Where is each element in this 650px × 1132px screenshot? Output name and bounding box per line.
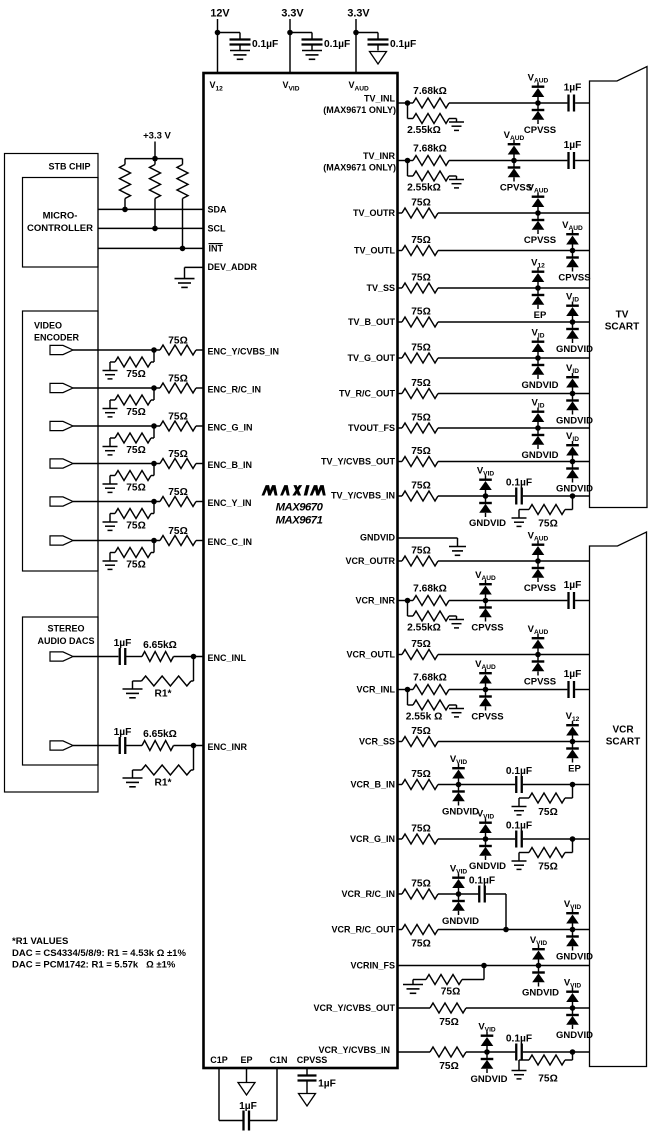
capacitor 0.1µF VCR_Y/CVBS_IN	[515, 1044, 517, 1061]
svg-text:0.1µF: 0.1µF	[469, 876, 495, 887]
svg-text:6.65kΩ: 6.65kΩ	[143, 640, 177, 651]
diode clamp VCR_OUTL upper (VAUD)	[532, 634, 545, 655]
svg-text:VCR_OUTL: VCR_OUTL	[346, 650, 395, 660]
svg-text:VCR: VCR	[612, 725, 634, 736]
ground	[449, 708, 464, 710]
junction TV_INL	[405, 100, 411, 106]
svg-text:STB CHIP: STB CHIP	[48, 162, 90, 172]
svg-text:75Ω: 75Ω	[411, 769, 431, 780]
junction VCR_SS	[570, 739, 576, 745]
buffer arrow ENC_Y_IN	[50, 497, 73, 506]
buffer arrow ENC_R/C_IN	[50, 383, 73, 392]
capacitor 0.1µF TV_Y/CVBS_IN	[515, 488, 517, 505]
wire VCR_INR	[398, 600, 414, 602]
junction ENC_G_IN	[151, 423, 157, 429]
svg-text:ENC_C_IN: ENC_C_IN	[208, 537, 253, 547]
svg-text:EP: EP	[568, 764, 581, 775]
ground DEV_ADDR	[175, 278, 195, 280]
svg-text:75Ω: 75Ω	[411, 378, 431, 389]
junction VCR_Y/CVBS_OUT	[570, 1005, 576, 1011]
resistor 2.55kΩ VCR_INL	[407, 690, 409, 706]
buffer arrow ENC_Y/CVBS_IN	[50, 345, 73, 354]
resistor 75Ω series ENC_G_IN	[160, 421, 196, 431]
svg-text:VCR_R/C_IN: VCR_R/C_IN	[341, 889, 395, 899]
wire VCR_R/C_OUT	[398, 929, 403, 931]
svg-text:ENC_Y/CVBS_IN: ENC_Y/CVBS_IN	[208, 346, 280, 356]
wire ENC_G_IN	[73, 425, 160, 427]
svg-text:DEV_ADDR: DEV_ADDR	[208, 262, 258, 272]
junction VCR_OUTL	[535, 652, 541, 658]
diode clamp TVOUT_FS upper (VID)	[532, 408, 545, 429]
svg-text:75Ω: 75Ω	[411, 198, 431, 209]
svg-text:3.3V: 3.3V	[347, 7, 370, 19]
resistor 75Ω series ENC_Y/CVBS_IN	[160, 345, 196, 355]
svg-text:GNDVID: GNDVID	[360, 533, 396, 543]
svg-text:0.1µF: 0.1µF	[506, 1034, 532, 1045]
ground	[230, 50, 250, 52]
wire VCR_OUTR	[398, 560, 403, 562]
STEREO AUDIO DACS box	[23, 617, 99, 765]
wire VCR_R/C_IN to VCR_R/C_OUT	[486, 893, 506, 895]
resistor 75Ω shunt VCR_G_IN	[572, 839, 574, 853]
wire TV_SS	[398, 287, 403, 289]
wire DEV_ADDR	[185, 266, 204, 268]
diode clamp TV_OUTR lower (CPVSS)	[532, 213, 545, 234]
junction VCR_INR	[483, 598, 489, 604]
svg-text:CPVSS: CPVSS	[297, 1055, 328, 1065]
svg-text:75Ω: 75Ω	[168, 449, 188, 460]
junction TV_INR	[511, 158, 517, 164]
capacitor 0.1uF on 12V	[230, 38, 251, 40]
resistor 2.55kΩ TV_INR	[407, 161, 409, 177]
capacitor 1µF VCR_INL	[567, 681, 569, 698]
junction VCR_B_IN	[456, 782, 462, 788]
MICRO-CONTROLLER box	[23, 178, 99, 268]
svg-text:TV_OUTR: TV_OUTR	[353, 208, 396, 218]
diode clamp VCR_INR upper (VAUD)	[479, 580, 492, 601]
svg-text:CPVSS: CPVSS	[524, 235, 556, 246]
junction VCR_INR	[405, 598, 411, 604]
diode clamp VCR_R/C_IN lower (GNDVID)	[452, 894, 465, 915]
wire C1N	[276, 1068, 278, 1121]
resistor 7.68kΩ TV_INR	[413, 156, 449, 166]
svg-text:GNDVID: GNDVID	[522, 450, 559, 461]
junction TV_Y/CVBS_IN output node	[570, 493, 576, 499]
svg-text:VCR_G_IN: VCR_G_IN	[350, 834, 395, 844]
junction pullup 2	[152, 226, 158, 232]
diode clamp VCR_B_IN lower (GNDVID)	[452, 785, 465, 806]
resistor 7.68kΩ TV_INL	[413, 98, 449, 108]
ground	[103, 370, 118, 372]
junction VCR_INL	[405, 687, 411, 693]
capacitor 1µF C1P-C1N	[242, 1111, 244, 1131]
junction ENC_R/C_IN	[151, 385, 157, 391]
resistor 6.65kΩ ENC_INL	[142, 652, 174, 662]
junction VCR_Y/CVBS_IN	[484, 1049, 490, 1055]
svg-text:75Ω: 75Ω	[126, 369, 146, 380]
svg-text:2.55k Ω: 2.55k Ω	[406, 712, 443, 723]
svg-text:DAC = PCM1742: R1 = 5.57k Ω: DAC = PCM1742: R1 = 5.57k Ω ±1%	[12, 960, 176, 971]
svg-text:75Ω: 75Ω	[411, 235, 431, 246]
svg-text:75Ω: 75Ω	[168, 412, 188, 423]
resistor R1* ENC_INR	[193, 746, 195, 771]
wire SDA	[98, 208, 204, 210]
svg-text:TV_R/C_OUT: TV_R/C_OUT	[339, 389, 396, 399]
wire VCR_Y/CVBS_IN	[398, 1051, 431, 1053]
diode clamp VCR_R/C_OUT lower (GNDVID)	[566, 930, 579, 951]
resistor pullup 3	[182, 159, 184, 165]
svg-text:ENC_B_IN: ENC_B_IN	[208, 460, 253, 470]
wire TV_INL	[398, 102, 414, 104]
diode clamp VCR_SS upper (V12)	[566, 721, 579, 742]
junction 3.3V	[287, 30, 293, 36]
svg-text:GNDVID: GNDVID	[556, 484, 593, 495]
ground	[449, 619, 464, 621]
svg-text:7.68kΩ: 7.68kΩ	[413, 144, 447, 155]
svg-text:(MAX9671 ONLY): (MAX9671 ONLY)	[323, 105, 396, 115]
svg-text:+3.3 V: +3.3 V	[143, 130, 171, 141]
wire SCL	[98, 227, 204, 229]
svg-text:75Ω: 75Ω	[126, 483, 146, 494]
diode clamp VCR_INL lower (CPVSS)	[479, 690, 492, 711]
wire 3.3V rail	[355, 19, 357, 73]
diode clamp VCR_Y/CVBS_IN upper (VVID)	[481, 1032, 494, 1053]
capacitor 1µF TV_INR	[567, 152, 569, 169]
svg-text:R1*: R1*	[155, 689, 172, 700]
svg-text:CPVSS: CPVSS	[558, 273, 590, 284]
wire VCR_G_IN	[398, 838, 403, 840]
wire VCR_B_IN	[398, 784, 403, 786]
svg-text:GNDVID: GNDVID	[469, 861, 506, 872]
svg-text:VCR_Y/CVBS_IN: VCR_Y/CVBS_IN	[318, 1045, 390, 1055]
svg-text:75Ω: 75Ω	[411, 824, 431, 835]
svg-text:EP: EP	[240, 1055, 252, 1065]
wire VCR_SS	[398, 741, 403, 743]
svg-text:75Ω: 75Ω	[168, 487, 188, 498]
svg-text:2.55kΩ: 2.55kΩ	[407, 125, 441, 136]
diode clamp TV_B_OUT upper (VID)	[566, 302, 579, 323]
diode clamp VCR_INL upper (VAUD)	[479, 669, 492, 690]
junction TV_G_OUT	[535, 355, 541, 361]
svg-text:SCART: SCART	[606, 737, 640, 748]
junction TV_R/C_OUT	[570, 391, 576, 397]
ground	[103, 446, 118, 448]
wire ENC_Y/CVBS_IN	[73, 349, 160, 351]
wire GNDVID	[398, 537, 458, 539]
diode clamp VCR_SS lower (EP)	[566, 742, 579, 763]
junction VCR_G_IN	[483, 836, 489, 842]
svg-text:TV_INL: TV_INL	[364, 93, 396, 103]
buffer arrow ENC_INR	[50, 741, 73, 750]
svg-text:DAC = CS4334/5/8/9: R1 = 4.53k: DAC = CS4334/5/8/9: R1 = 4.53k Ω ±1%	[12, 948, 186, 959]
svg-text:ENCODER: ENCODER	[34, 333, 80, 343]
svg-text:75Ω: 75Ω	[411, 726, 431, 737]
buffer arrow ENC_C_IN	[50, 536, 73, 545]
ground GNDVID	[449, 546, 466, 548]
wire TV_INR to clamp	[449, 160, 567, 162]
wire 12V rail	[217, 19, 219, 73]
svg-text:12V: 12V	[210, 7, 230, 19]
junction TV_Y/CVBS_OUT	[570, 459, 576, 465]
svg-text:75Ω: 75Ω	[168, 374, 188, 385]
svg-text:TV_OUTL: TV_OUTL	[354, 246, 396, 256]
wire TV_INR to connector	[575, 160, 589, 162]
signal ground CPVSS	[299, 1094, 316, 1107]
svg-text:AUDIO DACS: AUDIO DACS	[37, 636, 94, 646]
svg-text:1µF: 1µF	[239, 1101, 257, 1112]
wire ENC_B_IN	[73, 463, 160, 465]
svg-text:GNDVID: GNDVID	[522, 988, 559, 999]
svg-text:75Ω: 75Ω	[168, 526, 188, 537]
diode clamp VCR_B_IN upper (VVID)	[452, 764, 465, 785]
wire TV_INL to clamp	[449, 102, 567, 104]
svg-text:3.3V: 3.3V	[281, 7, 304, 19]
svg-text:(MAX9671 ONLY): (MAX9671 ONLY)	[323, 163, 396, 173]
signal ground	[370, 52, 387, 65]
resistor 75Ω series ENC_B_IN	[160, 459, 196, 469]
svg-text:GNDVID: GNDVID	[556, 416, 593, 427]
TV SCART connector	[590, 67, 648, 508]
junction TV_B_OUT	[570, 319, 576, 325]
svg-text:CPVSS: CPVSS	[524, 583, 556, 594]
diode clamp VCRIN_FS upper (VVID)	[532, 945, 545, 966]
svg-text:CPVSS: CPVSS	[524, 125, 556, 136]
diode clamp VCR_G_IN lower (GNDVID)	[479, 839, 492, 860]
diode clamp TV_Y/CVBS_OUT upper (VID)	[566, 441, 579, 462]
svg-text:75Ω: 75Ω	[411, 481, 431, 492]
ground	[403, 984, 423, 986]
diode clamp TV_OUTL lower (CPVSS)	[566, 251, 579, 272]
signal ground EP	[238, 1083, 255, 1096]
junction ENC_B_IN	[151, 461, 157, 467]
wire ENC_C_IN	[73, 540, 160, 542]
junction TV_Y/CVBS_IN	[483, 493, 489, 499]
diode clamp TV_Y/CVBS_OUT lower (GNDVID)	[566, 462, 579, 483]
wire ENC_INR	[73, 745, 118, 747]
junction +3.3V	[152, 156, 158, 162]
svg-text:CPVSS: CPVSS	[471, 712, 503, 723]
junction TV_SS	[535, 285, 541, 291]
svg-text:1µF: 1µF	[564, 669, 582, 680]
svg-text:SDA: SDA	[208, 205, 228, 215]
svg-text:75Ω: 75Ω	[126, 407, 146, 418]
svg-text:VCR_OUTR: VCR_OUTR	[345, 556, 395, 566]
svg-text:0.1µF: 0.1µF	[252, 39, 278, 50]
capacitor 0.1uF on 3.3V	[302, 38, 323, 40]
ground	[449, 121, 464, 123]
junction VCR_OUTR	[535, 558, 541, 564]
ground	[512, 806, 527, 808]
diode clamp VCR_Y/CVBS_OUT lower (GNDVID)	[566, 1008, 579, 1029]
capacitor 1µF ENC_INR	[119, 737, 121, 754]
svg-text:ENC_INL: ENC_INL	[208, 653, 247, 663]
diode clamp TV_INL upper (VAUD)	[532, 83, 545, 104]
svg-text:INT: INT	[209, 244, 224, 254]
svg-text:VCR_R/C_OUT: VCR_R/C_OUT	[331, 925, 395, 935]
capacitor 0.1µF VCR_B_IN	[515, 776, 517, 793]
wire VCR_R/C_IN	[398, 893, 403, 895]
svg-text:CPVSS: CPVSS	[524, 677, 556, 688]
junction 12V	[215, 30, 221, 36]
wire TV_OUTL	[398, 250, 403, 252]
svg-text:0.1µF: 0.1µF	[390, 39, 416, 50]
ground	[512, 1070, 527, 1072]
svg-text:ENC_Y_IN: ENC_Y_IN	[208, 498, 252, 508]
svg-text:C1P: C1P	[210, 1055, 228, 1065]
ground	[302, 50, 322, 52]
ground	[449, 179, 464, 181]
junction VCR_B_IN output node	[570, 782, 576, 788]
diode clamp TV_INR lower (CPVSS)	[508, 161, 521, 182]
wire ENC_INL	[73, 656, 118, 658]
wire TV_OUTR	[398, 212, 403, 214]
svg-text:GNDVID: GNDVID	[522, 380, 559, 391]
junction ENC_Y_IN	[151, 499, 157, 505]
junction VCRIN_FS	[536, 963, 542, 969]
junction ENC_Y/CVBS_IN	[151, 347, 157, 353]
junction ENC_INL	[191, 654, 197, 660]
svg-text:SCART: SCART	[605, 322, 639, 333]
svg-text:TVOUT_FS: TVOUT_FS	[348, 423, 395, 433]
svg-text:VCR_SS: VCR_SS	[359, 737, 395, 747]
diode clamp TV_INR upper (VAUD)	[508, 140, 521, 161]
svg-text:75Ω: 75Ω	[538, 862, 558, 873]
resistor 6.65kΩ ENC_INR	[142, 741, 174, 751]
junction VCR_R/C_IN	[456, 891, 462, 897]
svg-text:STEREO: STEREO	[47, 624, 84, 634]
resistor 75Ω shunt ENC_Y_IN	[153, 502, 155, 514]
svg-text:TV_Y/CVBS_OUT: TV_Y/CVBS_OUT	[321, 457, 396, 467]
svg-text:75Ω: 75Ω	[411, 639, 431, 650]
wire VCR_Y/CVBS_OUT	[398, 1007, 431, 1009]
wire TV_B_OUT	[398, 321, 403, 323]
junction pullup 3	[180, 246, 186, 252]
svg-text:75Ω: 75Ω	[441, 987, 461, 998]
wire CPVSS	[306, 1068, 308, 1076]
diode clamp TV_B_OUT lower (GNDVID)	[566, 322, 579, 343]
junction VCR_INL	[483, 687, 489, 693]
diode clamp VCR_R/C_OUT upper (VVID)	[566, 909, 579, 930]
diode clamp TV_INL lower (CPVSS)	[532, 103, 545, 124]
resistor pullup 1	[124, 159, 126, 165]
diode clamp TV_G_OUT lower (GNDVID)	[532, 358, 545, 379]
diode clamp TV_OUTR upper (VAUD)	[532, 193, 545, 214]
wire TV_Y/CVBS_IN	[398, 495, 403, 497]
wire C1P	[218, 1068, 220, 1121]
svg-text:1µF: 1µF	[564, 83, 582, 94]
svg-text:75Ω: 75Ω	[411, 446, 431, 457]
ground	[123, 688, 143, 690]
svg-text:1µF: 1µF	[114, 638, 132, 649]
svg-text:GNDVID: GNDVID	[556, 344, 593, 355]
diode clamp VCR_Y/CVBS_OUT upper (VVID)	[566, 988, 579, 1009]
svg-text:1µF: 1µF	[564, 580, 582, 591]
junction ENC_INR	[191, 743, 197, 749]
wire VCR_OUTL	[398, 654, 403, 656]
ground	[512, 517, 527, 519]
diode clamp TV_SS lower (EP)	[532, 288, 545, 309]
ground	[103, 408, 118, 410]
wire INT	[98, 247, 204, 249]
diode clamp VCR_INR lower (CPVSS)	[479, 601, 492, 622]
resistor 75Ω shunt ENC_B_IN	[153, 464, 155, 476]
resistor 2.55kΩ TV_INL	[407, 103, 409, 119]
svg-text:1µF: 1µF	[564, 140, 582, 151]
svg-text:75Ω: 75Ω	[126, 560, 146, 571]
wire VCR_INL	[398, 689, 414, 691]
svg-text:75Ω: 75Ω	[168, 336, 188, 347]
svg-text:VIDEO: VIDEO	[34, 321, 62, 331]
resistor 75Ω series ENC_R/C_IN	[160, 383, 196, 393]
svg-text:0.1µF: 0.1µF	[506, 766, 532, 777]
diode clamp VCR_R/C_IN upper (VVID)	[452, 874, 465, 895]
resistor 75Ω shunt ENC_R/C_IN	[153, 388, 155, 400]
capacitor 1µF VCR_INR	[567, 592, 569, 609]
wire 3.3V rail	[289, 19, 291, 73]
wire VCR_INR	[449, 600, 567, 602]
capacitor 0.1µF VCR_R/C_IN	[478, 886, 480, 903]
svg-text:7.68kΩ: 7.68kΩ	[413, 86, 447, 97]
wire TV_R/C_OUT	[398, 393, 403, 395]
svg-text:GNDVID: GNDVID	[556, 1030, 593, 1041]
svg-text:GNDVID: GNDVID	[469, 518, 506, 529]
MAXIM logo	[262, 485, 272, 495]
STB CHIP box	[5, 154, 99, 793]
capacitor 1µF CPVSS	[298, 1074, 317, 1076]
svg-text:SCL: SCL	[208, 224, 227, 234]
svg-text:ENC_R/C_IN: ENC_R/C_IN	[208, 384, 262, 394]
resistor 75Ω shunt VCR_Y/CVBS_IN	[572, 1052, 574, 1060]
wire TV_INL to connector	[575, 102, 589, 104]
VIDEO ENCODER box	[23, 311, 99, 571]
IC U1 MAX9670/MAX9671 body	[204, 73, 398, 1068]
diode clamp TVOUT_FS lower (GNDVID)	[532, 428, 545, 449]
wire TVOUT_FS	[398, 427, 403, 429]
junction VCR_G_IN output node	[570, 836, 576, 842]
svg-text:GNDVID: GNDVID	[442, 916, 479, 927]
ground	[512, 860, 527, 862]
junction TV_INL	[535, 100, 541, 106]
svg-text:75Ω: 75Ω	[538, 1074, 558, 1085]
svg-text:0.1µF: 0.1µF	[506, 821, 532, 832]
diode clamp VCR_OUTR lower (CPVSS)	[532, 561, 545, 582]
svg-text:75Ω: 75Ω	[538, 807, 558, 818]
resistor 2.55kΩ VCR_INR	[407, 601, 409, 617]
resistor 7.68kΩ VCR_INL	[413, 685, 449, 695]
svg-text:GNDVID: GNDVID	[471, 1074, 508, 1085]
junction VCR_R/C_OUT	[570, 927, 576, 933]
svg-text:75Ω: 75Ω	[411, 307, 431, 318]
wire TV_Y/CVBS_OUT	[398, 461, 403, 463]
wire ENC_Y_IN	[73, 501, 160, 503]
svg-text:MAX9671: MAX9671	[276, 515, 323, 527]
svg-text:1µF: 1µF	[114, 727, 132, 738]
resistor 75Ω series ENC_Y_IN	[160, 497, 196, 507]
diode clamp TV_OUTL upper (VAUD)	[566, 230, 579, 251]
wire VCR_INL	[449, 689, 567, 691]
svg-text:75Ω: 75Ω	[411, 939, 431, 950]
svg-text:EP: EP	[534, 310, 547, 321]
diode clamp VCR_OUTR upper (VAUD)	[532, 541, 545, 562]
svg-text:CPVSS: CPVSS	[471, 623, 503, 634]
svg-text:75Ω: 75Ω	[411, 343, 431, 354]
buffer arrow ENC_B_IN	[50, 459, 73, 468]
svg-text:VCR_Y/CVBS_OUT: VCR_Y/CVBS_OUT	[313, 1003, 395, 1013]
junction pullup 1	[122, 207, 128, 213]
svg-text:VCR_INL: VCR_INL	[356, 685, 395, 695]
svg-text:1µF: 1µF	[318, 1079, 336, 1090]
svg-text:75Ω: 75Ω	[439, 1017, 459, 1028]
